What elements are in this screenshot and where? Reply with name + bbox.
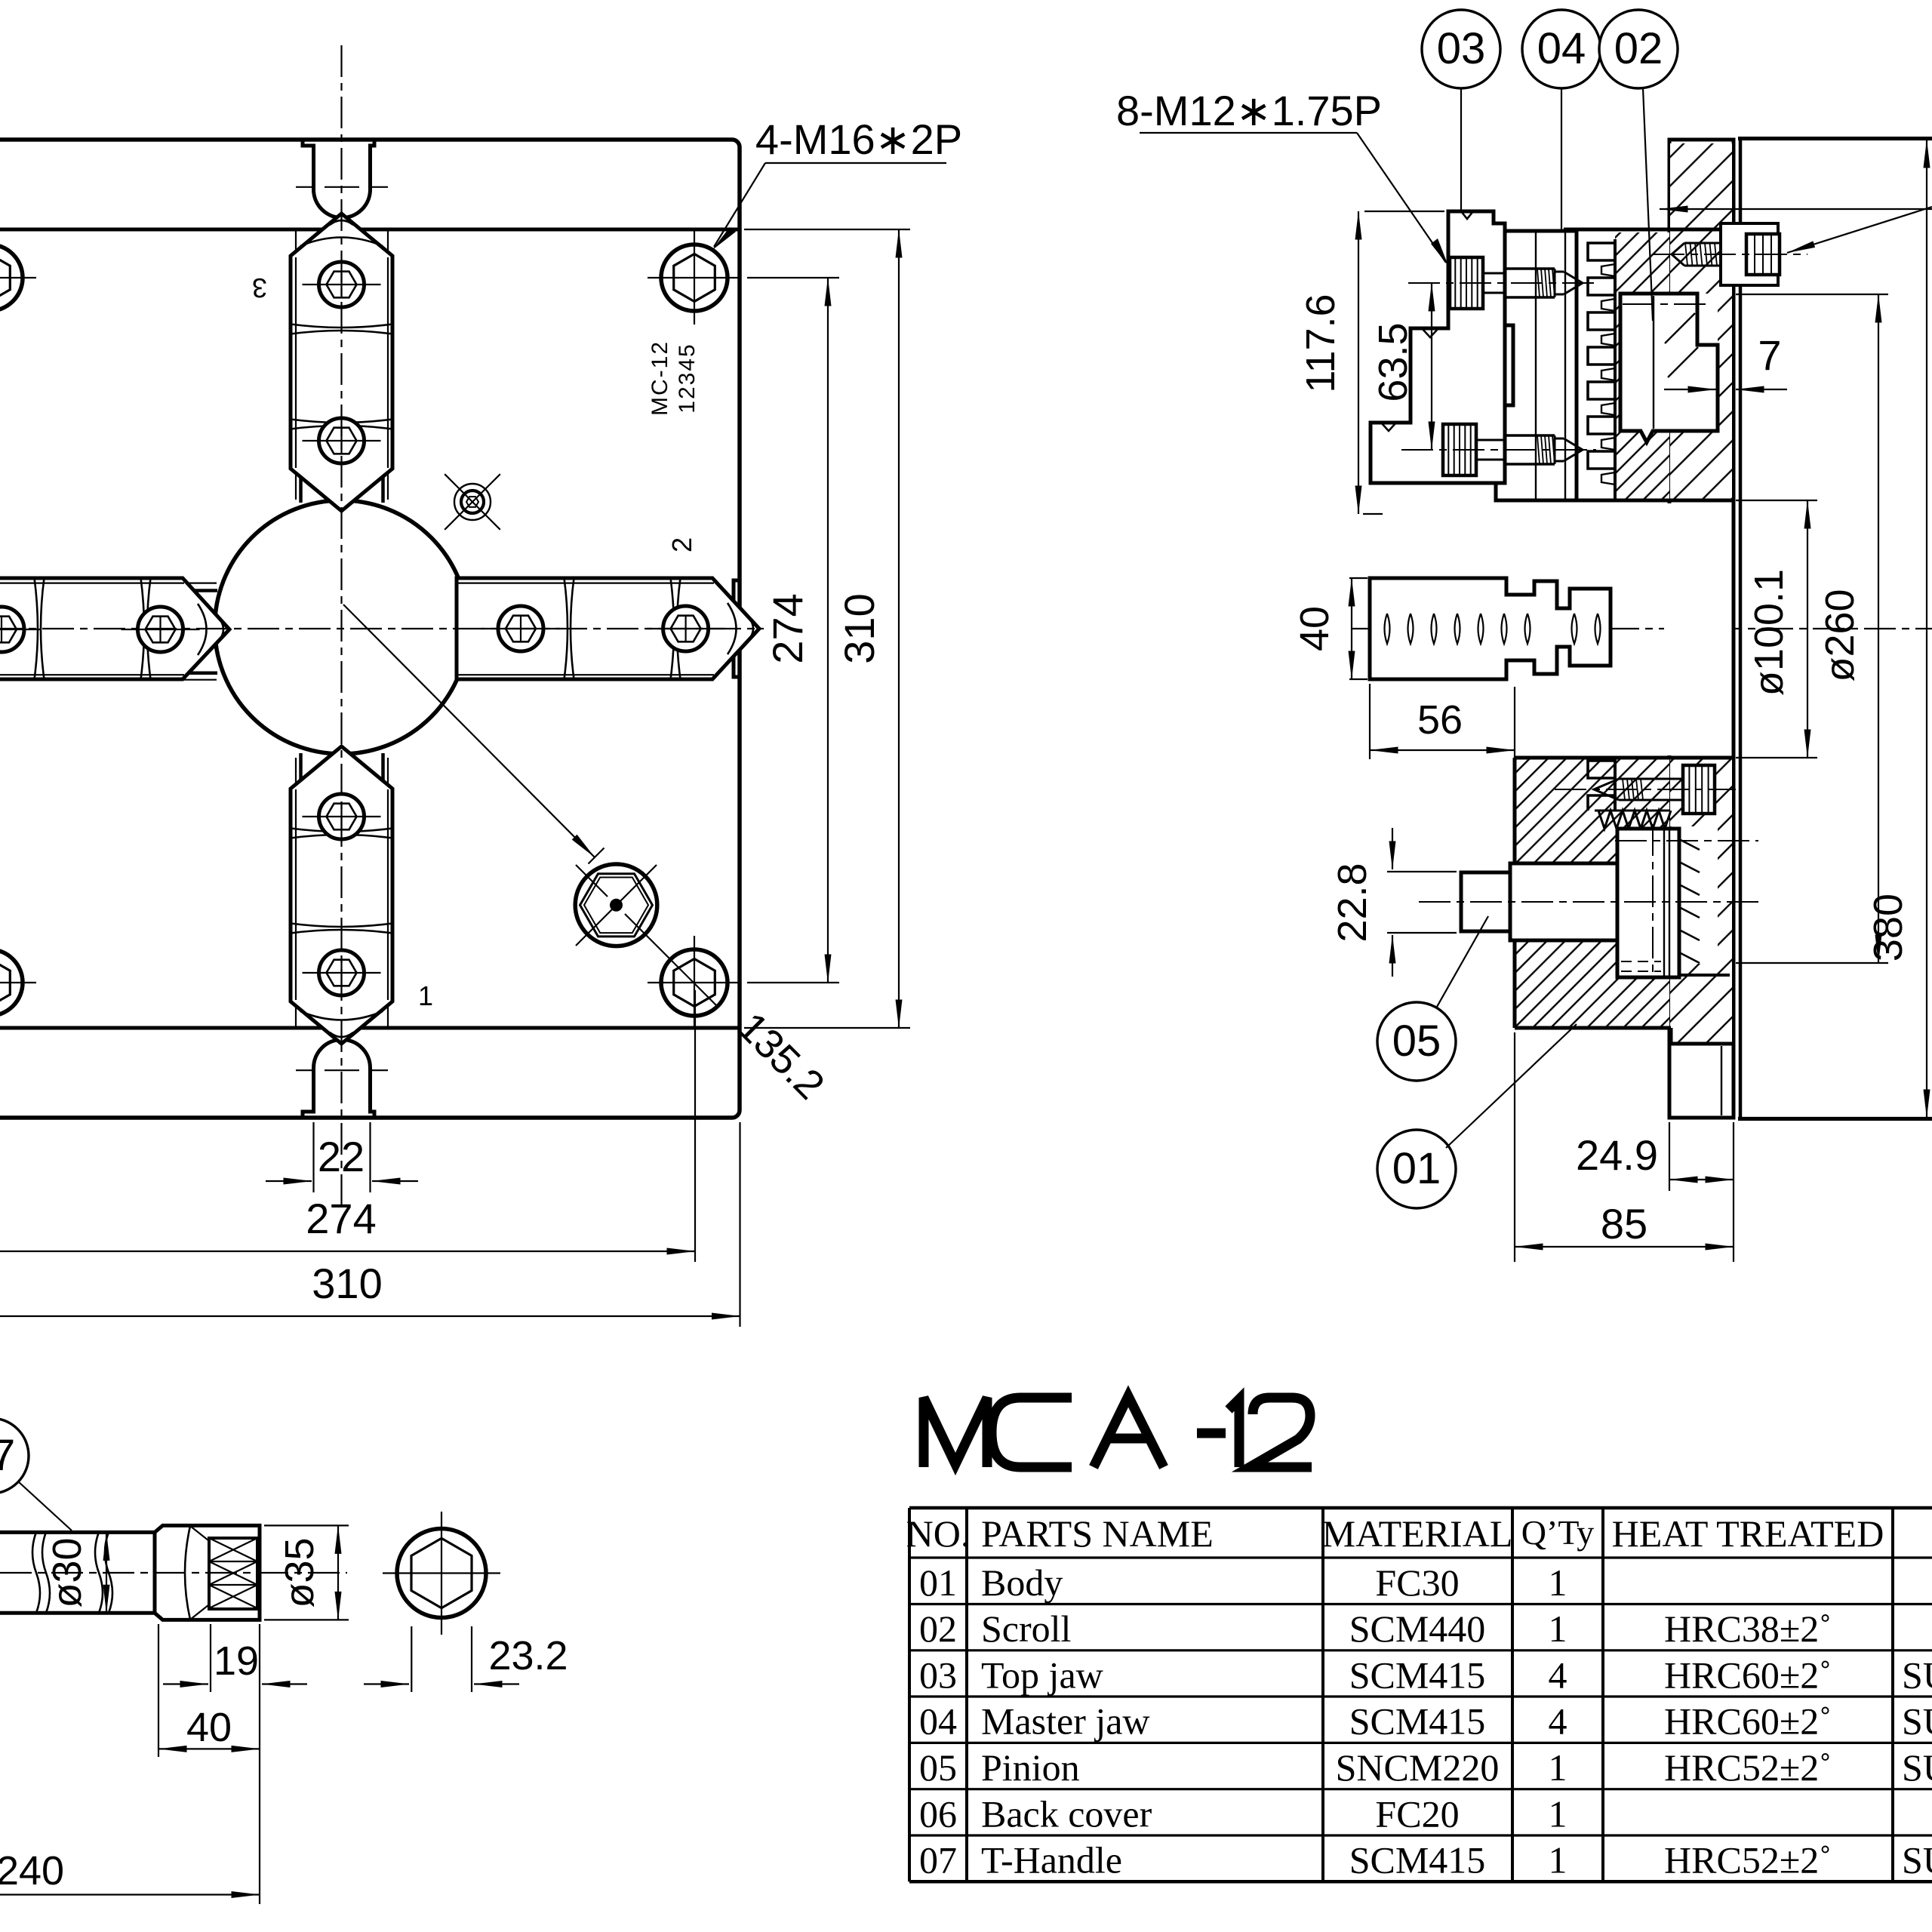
T-handle end cap (phi35) xyxy=(155,1525,260,1620)
svg-text:ø30: ø30 xyxy=(45,1537,90,1607)
T-handle callout 07 (partial) xyxy=(0,1418,29,1494)
body front face lower (section) xyxy=(1513,758,1517,1028)
T-handle centerline xyxy=(0,1572,347,1574)
svg-text:310: 310 xyxy=(312,1260,382,1307)
vertical T-slot guide lines top xyxy=(295,229,297,500)
svg-text:4-M16∗2P: 4-M16∗2P xyxy=(755,115,962,163)
svg-text:22: 22 xyxy=(318,1133,365,1180)
dimension 40 (T-nut height) xyxy=(1349,577,1367,579)
plate top slot notch (22mm) xyxy=(303,140,314,189)
body top face (section) xyxy=(1564,228,1734,232)
radius leader 135.2 xyxy=(343,605,595,857)
dimension 85 (body + plate) xyxy=(1514,1032,1515,1262)
callout circle 01 (body) xyxy=(1377,1130,1456,1208)
svg-text:05: 05 xyxy=(919,1746,957,1789)
jaw 3 interior chamfer lines xyxy=(295,257,297,468)
M16 mounting bolt hole bottom-left xyxy=(0,949,23,1016)
scroll rear ring gear (section, upper) xyxy=(1620,294,1718,442)
svg-text:12345: 12345 xyxy=(675,343,700,413)
chuck back plate (380mm square, front view) xyxy=(0,140,740,1118)
scroll retaining screw lower xyxy=(1683,765,1715,814)
back cover hatching below bore xyxy=(1670,758,1732,826)
svg-text:Top jaw: Top jaw xyxy=(981,1654,1103,1696)
svg-text:24.9: 24.9 xyxy=(1576,1131,1658,1179)
svg-text:380: 380 xyxy=(1866,894,1911,961)
scroll rear ring gear teeth xyxy=(1598,811,1671,829)
bar break curves xyxy=(32,1532,40,1613)
svg-text:2: 2 xyxy=(666,537,697,552)
front view horizontal centerline xyxy=(0,628,764,629)
svg-text:06: 06 xyxy=(919,1792,957,1835)
dimension 23.2 (hex across flats) xyxy=(411,1626,412,1692)
svg-text:02: 02 xyxy=(919,1607,957,1650)
jaw 4 tip cap xyxy=(219,618,223,641)
svg-text:01: 01 xyxy=(1392,1144,1441,1193)
knurl panel with cross pattern xyxy=(209,1538,257,1609)
jaw 1 socket screw upper xyxy=(319,794,365,839)
svg-text:T-Handle: T-Handle xyxy=(981,1839,1122,1881)
slot chamfer marks left rail xyxy=(189,589,217,592)
dimension 7 (cover land) xyxy=(1664,389,1716,390)
body front face upper (section) xyxy=(1515,231,1519,500)
svg-text:Q’Ty: Q’Ty xyxy=(1521,1513,1594,1552)
M16 mounting bolt hole top-right xyxy=(661,245,728,311)
vertical T-slot guide lines bottom xyxy=(295,758,297,1028)
svg-text:NO.: NO. xyxy=(906,1512,971,1555)
svg-text:02: 02 xyxy=(1614,24,1663,73)
svg-text:MATERIAL: MATERIAL xyxy=(1322,1512,1513,1555)
svg-text:19: 19 xyxy=(214,1638,259,1684)
master jaw 1 (bottom, front view) xyxy=(291,746,392,1044)
dimension 22.8 (pinion shaft) xyxy=(1387,871,1457,872)
pinion square drive end xyxy=(1461,872,1510,931)
svg-text:ø100.1: ø100.1 xyxy=(1746,569,1792,696)
hex socket end view hexagon (23.2) xyxy=(411,1538,472,1607)
svg-text:HEAT TREATED: HEAT TREATED xyxy=(1612,1512,1884,1555)
svg-text:56: 56 xyxy=(1417,697,1463,743)
svg-text:HRC52±2˚: HRC52±2˚ xyxy=(1664,1746,1832,1789)
front view vertical centerline xyxy=(340,45,342,1207)
pinion bevel gear head (section) xyxy=(1617,829,1679,977)
svg-text:22.8: 22.8 xyxy=(1330,863,1375,942)
lubrication nipple xyxy=(454,484,491,520)
svg-text:01: 01 xyxy=(919,1561,957,1604)
svg-text:Scroll: Scroll xyxy=(981,1607,1071,1650)
ring gear pitch line xyxy=(1623,303,1710,305)
svg-text:SU: SU xyxy=(1902,1746,1932,1789)
svg-text:PARTS NAME: PARTS NAME xyxy=(981,1512,1214,1555)
dimension 22 bottom notch xyxy=(312,1122,314,1192)
back cover hatching above bore xyxy=(1670,431,1732,500)
callout circle 02 (scroll) xyxy=(1599,10,1678,88)
horizontal T-slot guide lines right xyxy=(467,582,663,583)
svg-text:07: 07 xyxy=(919,1839,957,1881)
back cover hatching behind ring gear xyxy=(1718,294,1732,431)
svg-text:85: 85 xyxy=(1601,1200,1647,1247)
jaw 2 socket screw inner xyxy=(498,606,543,651)
dimension 40 (cap length) xyxy=(158,1624,159,1757)
spindle flange bottom edge xyxy=(1738,1118,1932,1121)
slot chamfer marks top rail xyxy=(299,474,303,503)
scroll disc hatching lower xyxy=(1615,758,1669,811)
jaw 1 tip cap and dome xyxy=(330,1032,353,1037)
svg-text:274: 274 xyxy=(764,593,811,663)
dimension 310 vertical xyxy=(744,229,910,230)
dimension 24.9 (back plate thickness) xyxy=(1669,1122,1670,1191)
svg-text:240: 240 xyxy=(0,1848,64,1894)
svg-text:HRC38±2˚: HRC38±2˚ xyxy=(1664,1607,1832,1650)
top jaw serration notches xyxy=(1461,211,1473,219)
M12 jaw mounting screw xyxy=(1450,257,1483,309)
svg-text:HRC60±2˚: HRC60±2˚ xyxy=(1664,1654,1832,1696)
svg-text:03: 03 xyxy=(919,1654,957,1696)
plate bottom step xyxy=(1669,1028,1673,1044)
dimension 310 horizontal xyxy=(739,1122,740,1327)
pinion bottom flange line xyxy=(1679,974,1730,977)
svg-text:SCM440: SCM440 xyxy=(1349,1607,1486,1650)
dimension phi30 xyxy=(106,1532,107,1613)
cap face arc xyxy=(185,1526,190,1620)
jaw 2 socket screw outer xyxy=(663,606,709,651)
leader to rear screw from cut callout xyxy=(1787,207,1932,253)
jaw 1 interior chamfer lines xyxy=(295,789,297,1000)
callout circle 03 (top jaw) xyxy=(1422,10,1500,88)
svg-text:3: 3 xyxy=(252,272,267,303)
bore opening white patch over plate edge xyxy=(1664,503,1676,755)
svg-text:4: 4 xyxy=(1549,1700,1567,1743)
chuck body square edge bottom (310mm) xyxy=(0,1026,740,1030)
pinion retaining thread (hidden lines) xyxy=(1621,961,1661,962)
spindle flange top edge xyxy=(1738,137,1932,140)
svg-text:SCM415: SCM415 xyxy=(1349,1700,1486,1743)
svg-text:40: 40 xyxy=(186,1705,232,1750)
hex socket end view circle xyxy=(397,1529,486,1618)
plate left slot notch (partial) xyxy=(0,601,22,657)
svg-text:1: 1 xyxy=(418,980,433,1011)
dimension phi35 xyxy=(264,1524,349,1526)
hex end view centerlines xyxy=(441,1512,442,1635)
T-nut thread symbols xyxy=(1385,614,1390,644)
jaw 3 socket screw lower xyxy=(319,418,365,463)
T-handle bar (phi30) xyxy=(0,1531,155,1534)
body bottom face (section) xyxy=(1515,1026,1671,1030)
slot chamfer marks right rail xyxy=(466,589,495,592)
svg-text:FC30: FC30 xyxy=(1375,1561,1459,1604)
back plate outline (section) xyxy=(1669,140,1734,1118)
svg-text:Master jaw: Master jaw xyxy=(981,1700,1150,1743)
jaw 4 socket screw inner xyxy=(138,607,183,652)
jaw T-nut (section at centerline) xyxy=(1370,578,1611,679)
pinion axis centerline xyxy=(1419,901,1758,903)
plate bottom tab inner line xyxy=(1721,1046,1722,1115)
scroll disc hatching upper xyxy=(1615,232,1669,500)
master jaw (section) xyxy=(1496,231,1577,500)
svg-text:SU: SU xyxy=(1902,1839,1932,1881)
svg-text:8-M12∗1.75P: 8-M12∗1.75P xyxy=(1116,87,1382,134)
svg-text:SNCM220: SNCM220 xyxy=(1336,1746,1500,1789)
svg-text:Back cover: Back cover xyxy=(981,1792,1152,1835)
M12 jaw mounting screw xyxy=(1443,424,1476,475)
scroll bore wall bottom (phi100.1) xyxy=(1515,756,1734,760)
callout circle 05 (pinion) xyxy=(1377,1002,1456,1081)
svg-text:05: 05 xyxy=(1392,1017,1441,1066)
master jaw 4 (left, front view) xyxy=(0,578,229,679)
svg-text:1: 1 xyxy=(1549,1561,1567,1604)
jaw 3 socket screw upper xyxy=(319,262,365,307)
dimension 240 (handle length) xyxy=(259,1624,260,1904)
svg-text:Body: Body xyxy=(981,1561,1063,1604)
dimension 380 (partial at edge) xyxy=(1738,139,1932,140)
pinion shaft (section) xyxy=(1510,863,1617,940)
back cover hatching upper band xyxy=(1670,143,1732,294)
svg-text:04: 04 xyxy=(1537,24,1586,73)
jaw 4 interior chamfer lines xyxy=(0,582,184,583)
dimension phi260 xyxy=(1736,294,1888,295)
svg-text:MC-12: MC-12 xyxy=(648,340,672,416)
top jaw (section) xyxy=(1371,211,1505,483)
master jaw 2 (right, front view) xyxy=(457,578,759,679)
M16 mounting bolt hole top-left xyxy=(0,245,23,311)
svg-text:SU: SU xyxy=(1902,1654,1932,1696)
bottom notch tick marks xyxy=(296,1069,312,1071)
parts table grid xyxy=(909,1508,1932,1881)
scroll and master jaw meshing teeth (upper) xyxy=(1588,243,1615,486)
body front hatching around pinion upper xyxy=(1515,758,1669,863)
slot chamfer marks bottom rail xyxy=(299,753,303,782)
svg-text:HRC52±2˚: HRC52±2˚ xyxy=(1664,1839,1832,1881)
svg-text:40: 40 xyxy=(1292,606,1337,651)
central scroll bore circle xyxy=(215,500,469,754)
title logo MCA-12 xyxy=(924,1396,1312,1467)
jaw 3 tip cap and dome xyxy=(330,220,353,225)
jaw 2 tip cap xyxy=(749,617,753,640)
right notch tick marks xyxy=(688,593,689,610)
pinion bevel teeth xyxy=(1679,839,1700,850)
dimension 56 (T-nut to body face) xyxy=(1369,684,1371,759)
svg-text:1: 1 xyxy=(1549,1839,1567,1881)
svg-text:310: 310 xyxy=(835,593,883,663)
svg-text:23.2: 23.2 xyxy=(488,1633,568,1678)
svg-text:04: 04 xyxy=(919,1700,957,1743)
scroll and master jaw meshing teeth (lower) xyxy=(1588,761,1615,811)
chuck body square edge top (310mm) xyxy=(0,228,740,232)
pinion hex socket (front view) xyxy=(575,864,657,946)
pinion socket diagonal centerlines xyxy=(576,865,608,897)
dimension 19 (knurl) xyxy=(210,1624,211,1692)
scroll bore wall top (phi100.1) xyxy=(1515,499,1734,503)
svg-text:7: 7 xyxy=(1758,331,1781,379)
back cover hatching lower band xyxy=(1670,964,1732,1044)
svg-text:4: 4 xyxy=(1549,1654,1567,1696)
svg-text:FC20: FC20 xyxy=(1375,1792,1459,1835)
jaw 2 interior chamfer lines xyxy=(458,582,714,583)
dimension 63.5 xyxy=(1431,283,1432,450)
jaw 1 socket screw lower xyxy=(319,950,365,995)
svg-text:07: 07 xyxy=(0,1431,15,1480)
horizontal T-slot guide lines left xyxy=(0,582,217,583)
body front hatching around pinion lower xyxy=(1515,940,1669,1028)
plate bottom slot notch (22mm) xyxy=(303,1068,314,1118)
leader at top right edge xyxy=(1660,208,1932,210)
dimension 274 horizontal xyxy=(694,990,696,1262)
plate right slot notch xyxy=(691,580,740,601)
svg-text:63.5: 63.5 xyxy=(1371,322,1416,401)
svg-text:SU: SU xyxy=(1902,1700,1932,1743)
svg-text:1: 1 xyxy=(1549,1792,1567,1835)
spindle flange front face xyxy=(1739,138,1743,1119)
section horizontal centerline xyxy=(1351,628,1932,629)
svg-text:SCM415: SCM415 xyxy=(1349,1839,1486,1881)
svg-text:1: 1 xyxy=(1549,1746,1567,1789)
svg-text:03: 03 xyxy=(1437,24,1486,73)
dimension 274 vertical xyxy=(747,277,839,278)
dimension phi100.1 xyxy=(1736,500,1817,501)
svg-text:SCM415: SCM415 xyxy=(1349,1654,1486,1696)
svg-text:274: 274 xyxy=(306,1195,376,1242)
svg-text:ø260: ø260 xyxy=(1817,589,1863,681)
svg-text:117.6: 117.6 xyxy=(1298,294,1343,392)
master jaw 3 (top, front view) xyxy=(291,214,392,511)
callout circle 04 (master jaw) xyxy=(1522,10,1601,88)
rear mounting screw (section) xyxy=(1721,223,1778,285)
svg-text:1: 1 xyxy=(1549,1607,1567,1650)
svg-text:ø35: ø35 xyxy=(277,1537,322,1607)
jaw 4 socket screw outer xyxy=(0,607,24,652)
notch arc center tick marks xyxy=(296,186,312,188)
M16 mounting bolt hole bottom-right xyxy=(661,949,728,1016)
svg-text:Pinion: Pinion xyxy=(981,1746,1080,1789)
back cover hatching behind pinion xyxy=(1718,826,1732,964)
dimension 117.6 xyxy=(1364,211,1444,212)
svg-text:HRC60±2˚: HRC60±2˚ xyxy=(1664,1700,1832,1743)
